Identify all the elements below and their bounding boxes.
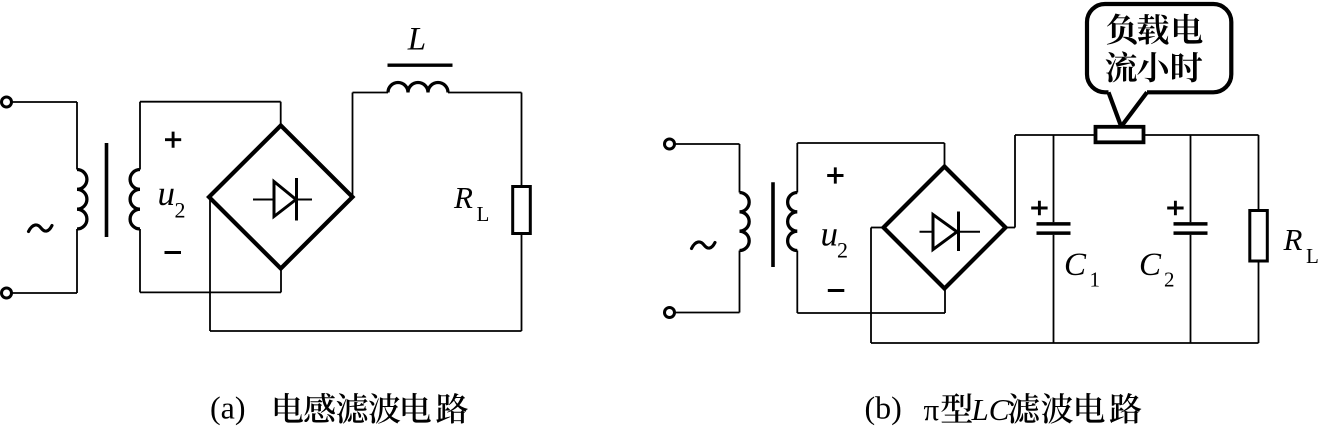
svg-text:L: L [407, 21, 426, 57]
wire secondary top lead (b) [796, 143, 798, 193]
label minus (b) [828, 289, 845, 292]
capacitor C2 plates [1174, 224, 1208, 233]
label + (b) [827, 167, 843, 183]
circuit (b) input terminal top [665, 139, 675, 149]
wire bridge right vertex up (a) [352, 93, 354, 198]
capacitor C1 bottom lead [1053, 235, 1055, 343]
wire drop to bridge top vertex (b) [944, 143, 946, 167]
wire top terminal to primary (b) [675, 143, 740, 145]
svg-text:2: 2 [1164, 268, 1175, 292]
svg-text:u: u [821, 215, 839, 254]
svg-text:(b): (b) [865, 389, 902, 425]
wire to inductor (a) [353, 92, 389, 94]
wire left vertex down (b) [870, 228, 872, 344]
inductor L winding [388, 83, 448, 93]
wire RL top lead (a) [521, 93, 523, 187]
diode cathode bar (a) [295, 178, 298, 221]
transformer primary winding (b) [740, 193, 750, 251]
diode triangle (b) [933, 215, 957, 250]
transformer T primary winding (a) [77, 170, 87, 230]
callout tail right edge [1122, 92, 1147, 125]
svg-text:u: u [158, 174, 176, 213]
diode triangle (a) [274, 182, 296, 217]
callout text line1 负载电 [1107, 14, 1203, 45]
svg-text:LC: LC [971, 392, 1010, 427]
circuit (a) input terminal bottom [2, 288, 12, 298]
caption (a) 电感滤波电路 [275, 393, 468, 424]
svg-text:R: R [1283, 222, 1303, 257]
bridge rectifier diamond (a) [209, 126, 353, 269]
transformer T secondary winding (a) [130, 170, 140, 230]
wire bottom terminal to primary [12, 292, 78, 294]
callout tail left edge [1109, 92, 1121, 125]
svg-text:2: 2 [175, 198, 186, 223]
svg-text:1: 1 [1090, 268, 1101, 292]
wire primary top lead (b) [739, 144, 741, 193]
wire rise from bridge bottom vertex [280, 267, 282, 292]
wire bottom rail (b) [871, 342, 1259, 344]
inductor core bar [388, 63, 453, 66]
svg-text:2: 2 [837, 238, 848, 263]
label + at C1 [1031, 201, 1047, 215]
wire bridge right vertex out (b) [1006, 227, 1016, 229]
svg-text:L: L [1306, 244, 1318, 268]
circuit (a) input terminal top [2, 97, 12, 107]
wire drop to bridge top vertex [280, 102, 282, 126]
svg-text:(a): (a) [210, 389, 246, 425]
wire inductor to RL (a) [448, 92, 522, 94]
wire secondary bottom lead (b) [796, 251, 798, 314]
wire secondary top lead [139, 102, 141, 170]
bridge rectifier diamond (b) [884, 167, 1006, 289]
svg-text:L: L [477, 202, 490, 226]
transformer core bar (a) [105, 143, 109, 237]
wire secondary top to bridge top [140, 101, 281, 103]
caption (b) 型 [941, 393, 972, 422]
wire secondary bottom to bridge (b) [797, 312, 945, 314]
svg-text:C: C [1139, 247, 1162, 283]
AC source symbol ~ (a) [29, 225, 53, 232]
capacitor C2 top lead [1190, 135, 1192, 222]
wire top rail (b) [1015, 134, 1259, 136]
svg-text:C: C [1064, 247, 1087, 283]
wire RL top lead (b) [1258, 135, 1260, 211]
resistor RL box (b) [1250, 211, 1268, 262]
AC source symbol ~ (b) [692, 242, 716, 249]
svg-text:π: π [924, 392, 940, 427]
label minus (a) [165, 251, 182, 254]
circuit (b) input terminal bottom [665, 308, 675, 318]
capacitor C1 top lead [1053, 135, 1055, 222]
wire bridge left vertex out (b) [871, 227, 884, 229]
wire primary top lead [76, 102, 78, 170]
capacitor C1 plates [1037, 224, 1071, 233]
transformer secondary winding (b) [788, 193, 798, 251]
wire right vertex up (b) [1014, 135, 1016, 228]
wire bridge left vertex down [209, 197, 211, 331]
svg-text:R: R [453, 180, 473, 215]
diode symbol inside bridge (b): through line [920, 231, 981, 233]
caption (b) 滤波电路 [1008, 393, 1141, 424]
transformer core bar (b) [771, 182, 775, 267]
wire primary bottom lead [76, 229, 78, 293]
wire bottom terminal to primary (b) [675, 312, 740, 314]
wire rise from bridge bottom vertex (b) [944, 289, 946, 314]
series resistor R box (in top rail) [1096, 127, 1144, 143]
wire RL bottom lead (a) [521, 234, 523, 332]
diode symbol inside bridge (a): through line [253, 199, 312, 201]
wire secondary bottom lead [139, 229, 141, 292]
wire top terminal to primary [12, 101, 78, 103]
label + (a) [165, 132, 181, 148]
label + at C2 [1167, 201, 1183, 215]
capacitor C2 bottom lead [1190, 235, 1192, 343]
wire RL bottom lead (b) [1258, 261, 1260, 343]
wire secondary bottom to bridge bottom [140, 291, 281, 293]
wire bottom rail (a) [210, 330, 522, 332]
diode cathode bar (b) [957, 212, 960, 252]
resistor RL box (a) [513, 187, 531, 234]
wire secondary top to bridge (b) [797, 142, 944, 144]
callout bubble box [1087, 4, 1231, 92]
callout text line2 流小时 [1106, 51, 1203, 82]
wire primary bottom lead (b) [739, 251, 741, 313]
